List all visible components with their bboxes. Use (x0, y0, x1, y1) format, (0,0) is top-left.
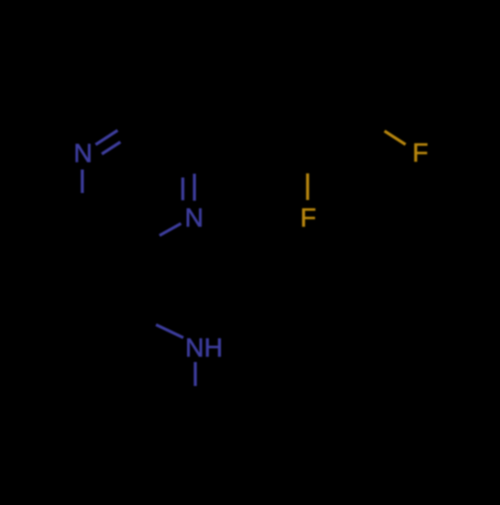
svg-text:NH: NH (185, 332, 223, 362)
wire: pyrazine C3=N4 double bond, main line (blue half) (193, 174, 196, 201)
wire: pyrazine N1=C2 double bond, inner line (blue half) (102, 142, 121, 154)
wire: C-F bond to F1 (orange half) (306, 173, 309, 200)
wire: pyrazine N1=C2 double bond, main line (blue half) (96, 130, 118, 144)
wire: CH2-NH bond (blue half) (156, 325, 183, 338)
svg-text:N: N (74, 138, 93, 168)
wire: pyrazine N4-C5 bond (blue half) (160, 224, 182, 236)
wire: C-F bond to F2 (orange half) (385, 131, 406, 145)
wire: pyrazine N1-C6 bond (blue half) (81, 170, 84, 194)
wire: pyrazine C3=N4 double bond, inner line (blue half) (181, 178, 184, 201)
svg-text:F: F (300, 203, 316, 233)
wire: NH-CH3 bond (blue half) (194, 362, 197, 386)
svg-text:F: F (412, 138, 428, 168)
svg-text:N: N (185, 203, 204, 233)
